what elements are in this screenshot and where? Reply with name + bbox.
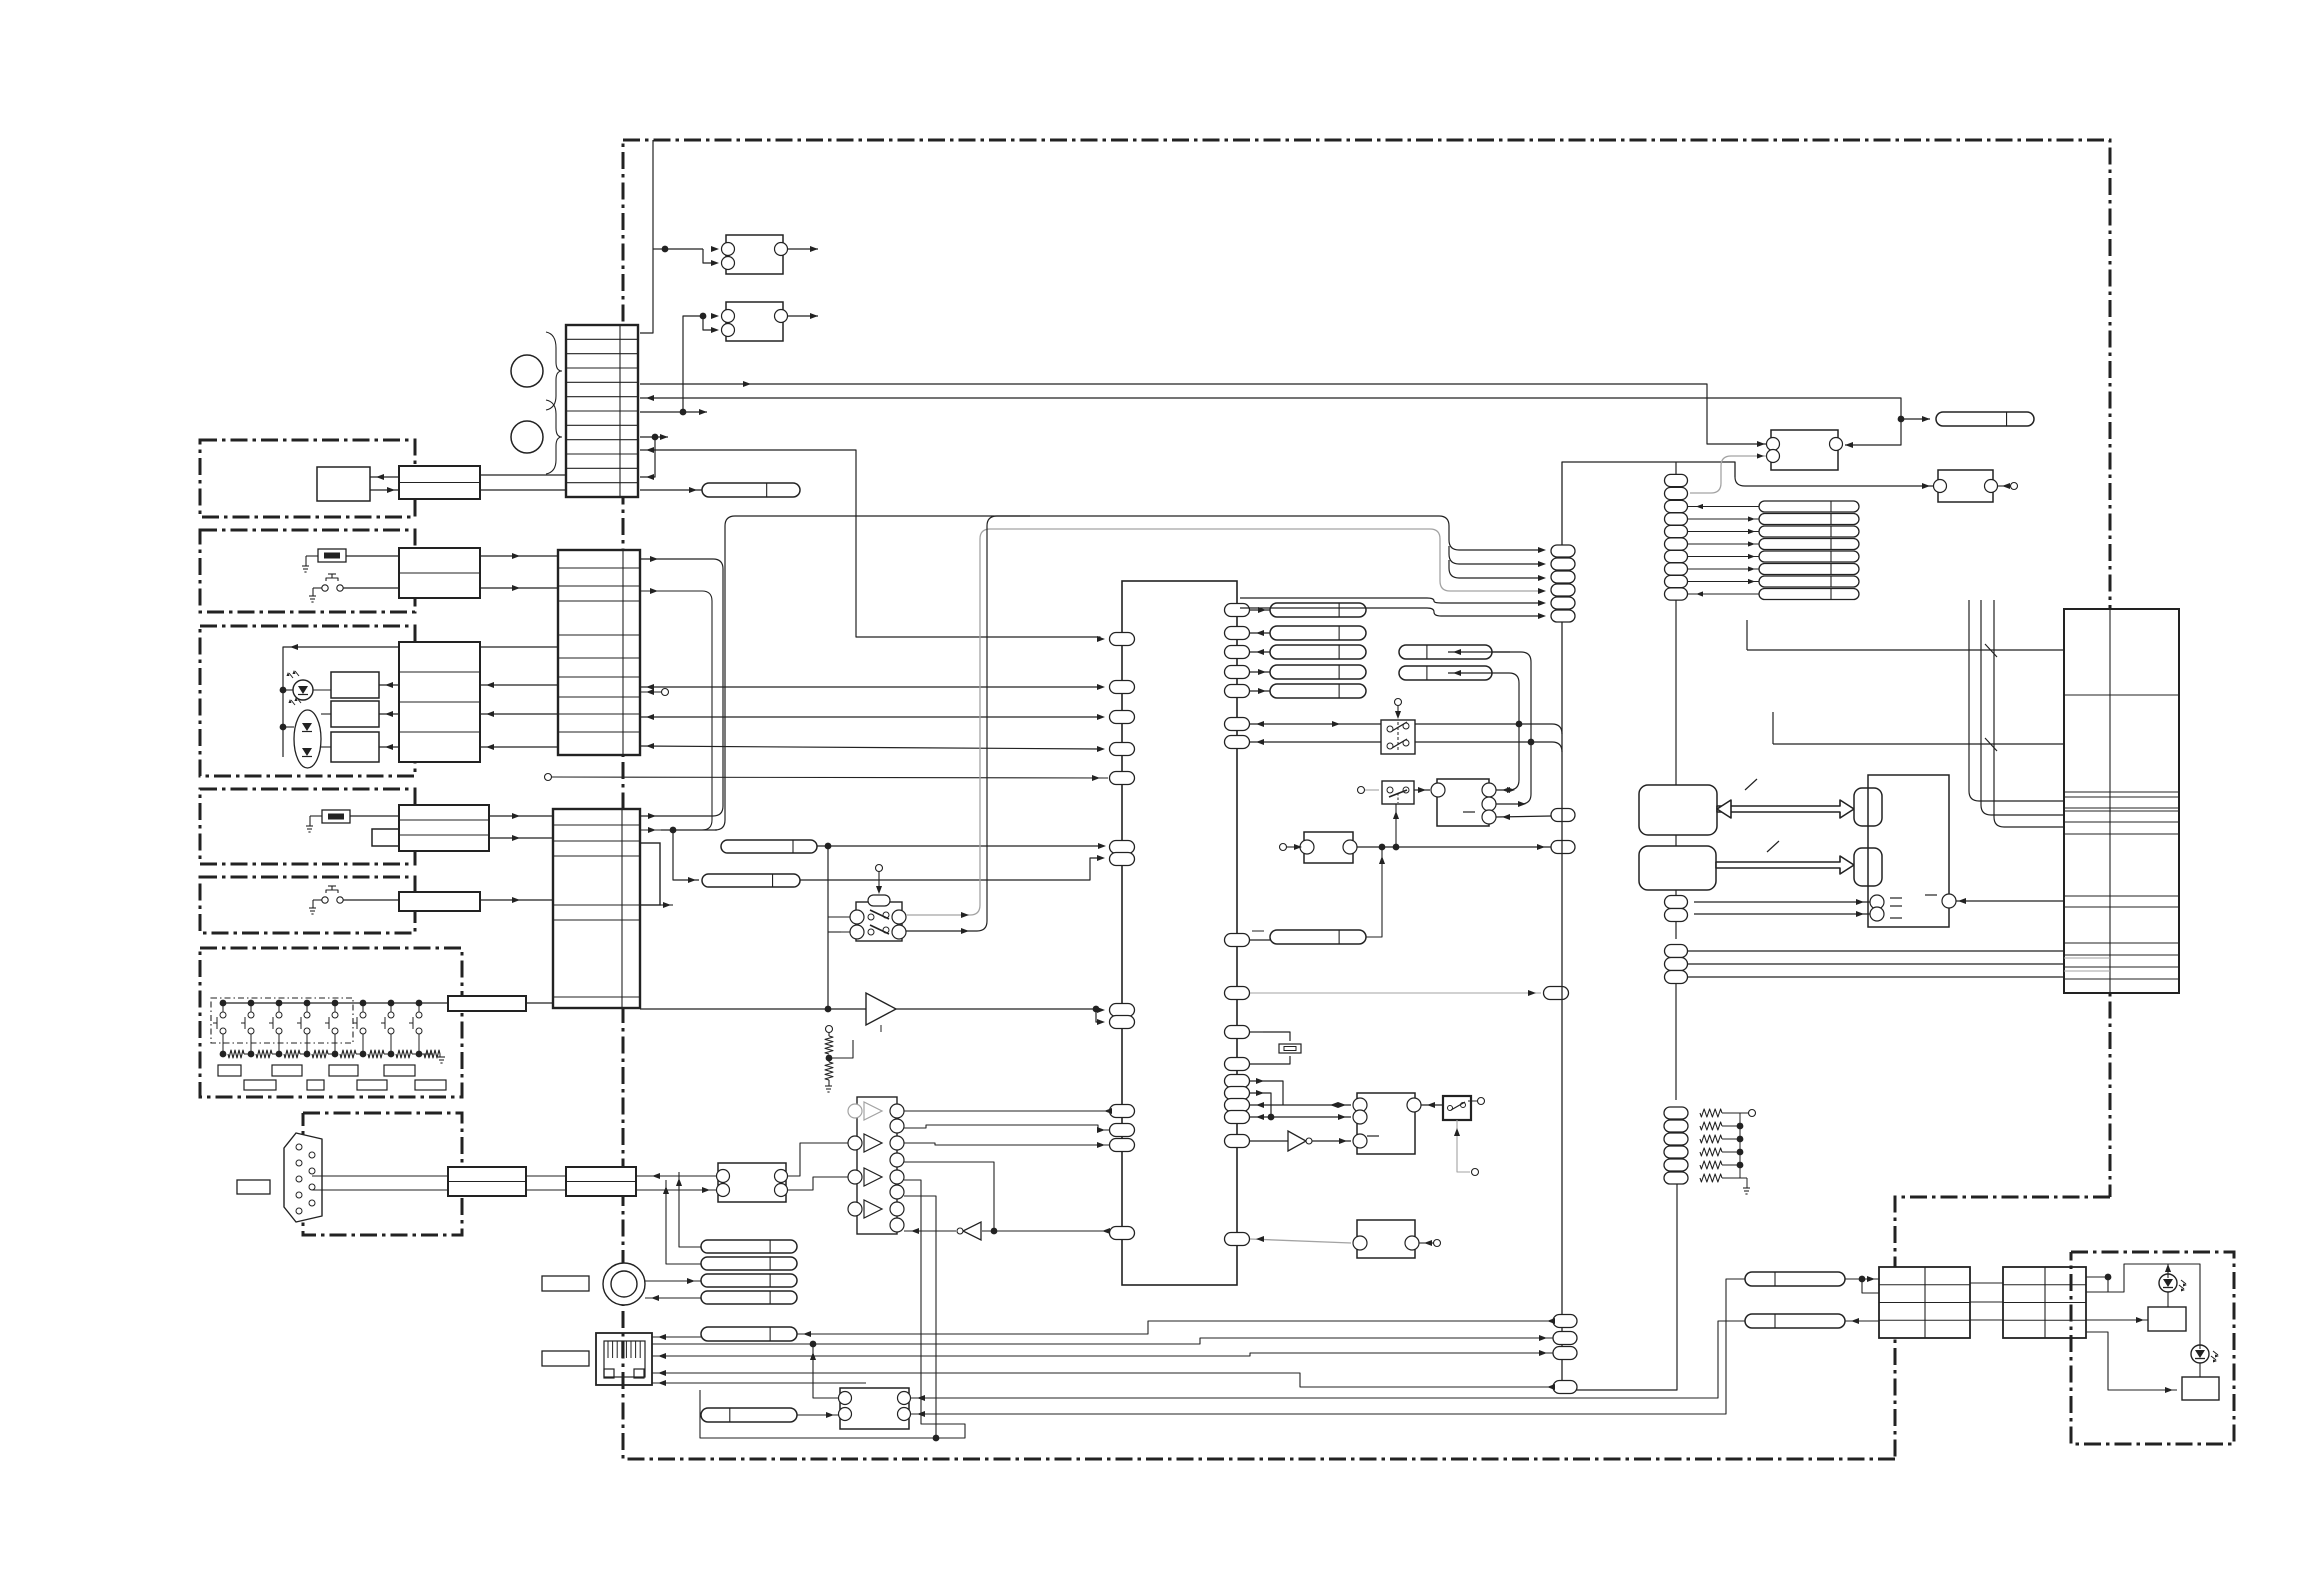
label plate — [542, 1276, 589, 1291]
pin pills P3 — [1665, 945, 1688, 958]
U1 left pin pair A — [1110, 841, 1135, 854]
wire to MCU row2 — [640, 716, 1100, 718]
wire — [1250, 741, 1381, 743]
wire U2c3 — [1496, 816, 1551, 817]
wire stub long — [545, 774, 552, 781]
wire long 1389 — [1310, 1388, 1553, 1390]
wire riser 1562 bottom — [1561, 1389, 1563, 1391]
left unit box 1 (sensor) — [200, 440, 415, 517]
connector CN18 — [566, 1167, 636, 1196]
bus pin pill 2 — [1551, 841, 1575, 854]
wire gray rows — [2064, 957, 2110, 959]
ferrite bead FB12 — [721, 840, 817, 853]
wire — [1845, 1320, 1879, 1322]
ferrite bead FB39 — [1936, 412, 2034, 426]
wire — [370, 489, 399, 491]
wire — [2086, 1276, 2108, 1278]
key group dotted frame — [211, 998, 353, 1043]
wire — [788, 1143, 848, 1176]
wire — [982, 1230, 1110, 1232]
ferrite bead FB46 — [701, 1408, 797, 1422]
wire CN14-CN3 b — [489, 837, 553, 839]
inverter B3 — [963, 1222, 981, 1240]
wire CN14-CN3 — [489, 815, 553, 817]
wire to MCU row1 — [640, 686, 1100, 688]
connector CN11 — [399, 466, 480, 499]
wire fan branch3 — [1449, 560, 1540, 578]
wire riser from FB940 — [1366, 847, 1382, 937]
pin header P1 pills — [1551, 545, 1575, 557]
wire — [1845, 1278, 1879, 1280]
wire — [1250, 1104, 1351, 1106]
wire — [1739, 1113, 1741, 1178]
wire buffer input — [640, 1008, 866, 1010]
wire s-curve 1 — [640, 559, 723, 816]
wire FB26 to U2c2 — [1448, 652, 1531, 804]
U1 right pin 940 — [1225, 934, 1250, 947]
wire — [1250, 609, 1270, 611]
wire — [800, 858, 1100, 880]
left unit box 5 (switch unit) — [200, 877, 415, 933]
opto isolator U5 — [1357, 1220, 1415, 1258]
wire — [313, 689, 331, 691]
ferrite bead FB45 — [701, 1327, 797, 1341]
wire — [904, 1230, 956, 1232]
wire — [911, 1279, 1745, 1414]
wire — [828, 916, 850, 918]
wire — [312, 1175, 448, 1177]
wire long top A — [640, 384, 1771, 444]
buffer array U9 — [857, 1097, 897, 1234]
connector CN5 (main right) — [2064, 609, 2179, 993]
key switch SW25 — [332, 1000, 339, 1007]
U1 right pin 1141 — [1225, 1135, 1250, 1148]
wire — [379, 746, 399, 748]
wire vertical bus A — [1562, 462, 1735, 545]
transformer T3 — [2003, 1267, 2086, 1338]
switch SW2 (dual) — [1381, 720, 1415, 754]
wire — [904, 1196, 936, 1438]
driver U10 — [840, 1388, 909, 1429]
motor M11 — [511, 355, 543, 387]
D-sub 9 connector J7 — [284, 1133, 322, 1222]
key switch SW21 — [220, 1000, 227, 1007]
RJ45 jack J2 — [596, 1333, 652, 1385]
wire CN13-CN2 rows — [480, 646, 558, 648]
key resistor ladder R21-R27 — [220, 1051, 227, 1058]
wire — [1250, 992, 1541, 994]
bus arrow A — [1717, 800, 1854, 818]
ferrite beads FB31-FB38 — [1759, 501, 1859, 512]
key switch SW23 — [276, 1000, 283, 1007]
key switch SW24 — [304, 1000, 311, 1007]
IC U7 — [1938, 470, 1993, 502]
wire — [1970, 1282, 2003, 1284]
wire — [665, 248, 703, 250]
ground — [309, 595, 316, 597]
wire — [1190, 1339, 1562, 1341]
bottom right unit box (LED indicators) — [2071, 1252, 2234, 1444]
toroid T1 — [603, 1263, 645, 1305]
LED D2 D3 (dual, oval) — [294, 710, 321, 768]
wire — [1250, 1116, 1351, 1118]
key switch SW28 — [416, 1000, 423, 1007]
main connector CN1 (top) — [566, 325, 638, 497]
wire CN11-CN1 b — [480, 489, 566, 491]
wire — [683, 316, 703, 412]
wire — [788, 1177, 848, 1190]
wire — [652, 1336, 701, 1338]
wire — [666, 1180, 701, 1264]
wire — [1956, 900, 2064, 902]
wire — [788, 315, 818, 317]
bus arrow B — [1716, 856, 1854, 874]
label plate — [542, 1351, 589, 1366]
inverter B2 — [1250, 1140, 1288, 1142]
port block PB — [1854, 848, 1882, 886]
wire s-curve 2 — [640, 591, 712, 830]
wire gray enable — [1457, 1120, 1470, 1172]
wire — [640, 140, 653, 333]
analog switch SW1 — [856, 902, 902, 941]
U1 right pin 993 — [1225, 987, 1250, 1000]
driver block A4 — [331, 732, 379, 762]
connector CN12 — [399, 548, 480, 598]
wire — [2167, 1264, 2169, 1274]
U1 right pin 1239 — [1225, 1233, 1250, 1246]
fuse F1 — [318, 549, 346, 562]
ferrite beads FB26 FB27 — [1399, 645, 1492, 659]
MCU A (flash) — [1639, 785, 1717, 835]
wire — [636, 1189, 716, 1191]
wire — [1688, 976, 2064, 978]
pin pills P4 — [1553, 1315, 1577, 1328]
main connector CN3 (lower) — [553, 809, 640, 1008]
line driver U8 — [718, 1163, 786, 1202]
MCU B (ram) — [1639, 846, 1716, 890]
wire — [1694, 901, 1870, 903]
switch SW4 — [1443, 1096, 1471, 1120]
regulator U11 — [726, 235, 783, 274]
wire — [797, 1414, 838, 1416]
opto isolator U4 — [1357, 1093, 1415, 1154]
wire fan branch2 — [1449, 546, 1540, 564]
connector CN14 — [399, 805, 489, 851]
wire — [679, 1172, 701, 1247]
wire long top B — [640, 398, 1901, 445]
wire FB27 to U2c1 — [1448, 673, 1519, 790]
wire bus bottom corner — [1562, 1184, 1677, 1390]
wire — [2086, 1332, 2177, 1390]
wire — [904, 1125, 1110, 1130]
wire — [321, 713, 331, 715]
wire — [640, 411, 707, 413]
driver block A2 — [331, 672, 379, 698]
wire — [904, 1162, 994, 1231]
U1 right pins xtal — [1225, 1026, 1250, 1039]
wire gray riser — [906, 529, 1430, 915]
wire — [312, 1189, 448, 1191]
driver block A3 — [331, 701, 379, 727]
wire — [283, 647, 399, 757]
main connector CN2 (middle) — [558, 550, 640, 755]
oscillator OSC1 — [1304, 832, 1353, 863]
outer board boundary (dash-dot frame) — [623, 140, 2110, 1197]
wire — [1688, 950, 2064, 952]
fuse F2 — [322, 810, 350, 823]
wire slash B — [1773, 743, 2064, 745]
wire CN12-CN2 b — [480, 587, 558, 589]
wires P2-FB3x — [1688, 506, 1759, 508]
ground — [1743, 1187, 1750, 1189]
wire — [645, 1280, 701, 1282]
ground — [825, 1085, 832, 1087]
wire — [1675, 921, 1677, 939]
switch SW12 — [322, 897, 328, 903]
crystal X1 — [1250, 1031, 1263, 1033]
wire gray — [1250, 1239, 1351, 1243]
IC U2 — [1437, 779, 1489, 826]
wire notch stub — [660, 904, 673, 906]
connector CN15 — [399, 892, 480, 911]
wire — [640, 436, 668, 438]
wire stub cn2 — [640, 691, 661, 693]
buffer amp B1 — [866, 993, 896, 1025]
wire mid vertical — [640, 450, 1100, 639]
brace — [546, 400, 562, 474]
wire — [1744, 841, 1746, 862]
photo sensor D1 — [293, 680, 313, 700]
wire — [346, 555, 399, 557]
ground — [306, 825, 313, 827]
wire — [343, 587, 399, 589]
wire — [1492, 651, 1510, 653]
wire — [661, 829, 717, 831]
wire — [1845, 1320, 1879, 1322]
wire — [306, 555, 318, 557]
resistor R12 — [828, 1058, 830, 1062]
wire vertical bus A lower — [1561, 622, 1563, 1390]
wire CN11-CN1 — [480, 474, 566, 476]
wire — [526, 1175, 566, 1177]
resistor block R42 — [2182, 1377, 2219, 1400]
brace — [546, 332, 562, 410]
wire — [700, 1180, 965, 1438]
key matrix bus wire — [223, 1002, 448, 1004]
wire fan low2 — [1240, 608, 1540, 616]
wire fan gray — [1430, 529, 1540, 591]
wire CN15-CN3 — [480, 899, 553, 901]
wire — [645, 1297, 701, 1299]
resistor array pills — [1664, 1107, 1688, 1119]
wire — [350, 815, 399, 817]
wire — [640, 437, 655, 477]
wire — [2086, 1319, 2148, 1321]
left unit box 6 (key switch board) — [200, 948, 462, 1097]
wire CN12-CN2 — [480, 555, 558, 557]
resistor array R31-R36 — [1700, 1109, 1722, 1117]
U1 left pins — [1110, 633, 1135, 646]
U1 right pins upper — [1225, 604, 1250, 617]
resistor R11 pullup — [826, 1026, 833, 1033]
ferrite beads FB41-FB44 — [701, 1240, 797, 1253]
wire — [321, 746, 331, 748]
motor M12 — [511, 421, 543, 453]
pin column P2 — [1665, 474, 1688, 486]
ground — [438, 1056, 445, 1058]
ferrite bead FB47 — [1745, 1272, 1845, 1286]
key label plates — [218, 1065, 241, 1076]
wire — [1675, 983, 1677, 1100]
wire — [370, 476, 399, 478]
wire — [1250, 939, 1272, 941]
wire fan low1 — [1240, 598, 1540, 603]
key switch SW22 — [248, 1000, 255, 1007]
wire — [343, 899, 399, 901]
ferrite bead FB11 — [702, 483, 800, 497]
wire — [1250, 1093, 1271, 1117]
ferrite beads FB21-FB25 — [1270, 603, 1366, 617]
bus pin pill — [1551, 809, 1575, 822]
wire — [640, 489, 702, 491]
wire — [813, 1344, 838, 1398]
connector CN16 — [448, 996, 526, 1011]
port block PA — [1854, 788, 1882, 826]
wire — [1250, 1081, 1283, 1105]
wire — [2167, 1292, 2169, 1307]
wire to MCU row3 — [640, 746, 1100, 749]
connector CN13 — [399, 642, 480, 762]
wire — [653, 248, 665, 250]
wire — [379, 713, 399, 715]
wire riser 2 — [906, 516, 1030, 931]
wire — [1421, 1104, 1443, 1106]
IC U6 — [1771, 430, 1838, 470]
wire gray — [1690, 456, 1766, 493]
wire — [828, 931, 841, 933]
wire staircase to CN — [1969, 600, 2064, 801]
tab terminal — [372, 829, 399, 846]
LED D12 — [2191, 1345, 2209, 1363]
connector notch — [640, 843, 660, 905]
wire SW3 riser — [1395, 804, 1397, 847]
connector CN17 — [448, 1167, 526, 1196]
wire long mid — [715, 516, 1439, 830]
left unit box 7 (serial port) — [303, 1113, 462, 1235]
ground — [302, 565, 309, 567]
U1 left pin pair B — [1110, 1004, 1135, 1017]
ASIC U3 — [1868, 775, 1949, 927]
wire — [1694, 913, 1870, 915]
wire — [904, 1143, 1110, 1145]
wires RJ45 bus — [797, 1321, 1553, 1334]
switch SW3 — [1382, 781, 1414, 804]
switch SW11 — [322, 585, 328, 591]
wire — [526, 1002, 553, 1004]
key switch SW27 — [388, 1000, 395, 1007]
wire — [2086, 1264, 2200, 1345]
wire — [1688, 963, 2064, 965]
wire — [1357, 846, 1551, 848]
wire — [788, 248, 818, 250]
transformer T2 — [1879, 1267, 1970, 1338]
wire — [911, 1321, 1745, 1398]
left unit box 4 (fuse unit) — [200, 789, 415, 864]
wire — [636, 1175, 716, 1177]
wire — [817, 845, 1102, 847]
resistor block R41 — [2148, 1307, 2186, 1331]
wire switch feed — [827, 846, 829, 1009]
key switch SW26 — [360, 1000, 367, 1007]
U1 right pin row2 — [1225, 718, 1250, 731]
wire — [379, 684, 399, 686]
wire rj45 low — [652, 1382, 866, 1384]
ground — [309, 907, 316, 909]
wire fan to P1 — [1439, 516, 1540, 550]
left unit box 3 (LED / photo sensors) — [200, 626, 415, 776]
U1 right pins group3 — [1225, 1075, 1250, 1088]
ferrite bead FB13 — [702, 874, 800, 887]
regulator U12 — [726, 302, 783, 341]
U1 left pins lower — [1110, 1105, 1135, 1118]
wire — [904, 1110, 1110, 1112]
wire — [1250, 723, 1381, 725]
sensor block A1 — [317, 467, 370, 501]
wire — [1898, 416, 1905, 423]
main IC U1 (system controller) — [1122, 581, 1237, 1285]
wire — [2199, 1363, 2201, 1377]
wire slash A — [1747, 649, 2064, 651]
wire — [1414, 789, 1430, 791]
wire — [1675, 600, 1677, 785]
left unit box 2 (fuse + switch) — [200, 530, 415, 612]
wire — [911, 1279, 1745, 1414]
wire buffer output — [896, 1008, 1096, 1010]
LED D11 — [2159, 1274, 2177, 1292]
label plate — [237, 1180, 270, 1194]
ferrite bead FB48 — [1745, 1314, 1845, 1328]
